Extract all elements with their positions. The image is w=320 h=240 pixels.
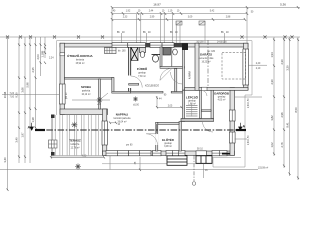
right dimension labels — [270, 52, 298, 148]
room label terasz — [69, 138, 81, 149]
exterior wall: east wing — [229, 88, 235, 156]
svg-text:15,92 m²: 15,92 m² — [75, 62, 84, 65]
svg-text:parketta: parketta — [82, 90, 91, 93]
svg-text:greslap: greslap — [138, 72, 146, 75]
wall wing middle — [181, 119, 214, 122]
svg-text:2,99: 2,99 — [150, 17, 155, 19]
stair arrow — [191, 103, 193, 117]
wall eloter west — [156, 122, 158, 151]
svg-text:A: A — [243, 125, 246, 129]
wall hall south — [112, 92, 131, 94]
left dimension labels — [3, 52, 45, 163]
svg-text:7,30 m²: 7,30 m² — [138, 75, 146, 78]
interior dimension eloter — [156, 96, 183, 109]
svg-text:3,82: 3,82 — [270, 115, 274, 121]
sill dim 10 — [109, 122, 121, 126]
svg-text:7,00: 7,00 — [10, 97, 15, 99]
window top 1 — [112, 43, 146, 48]
west corner small dims — [43, 47, 55, 60]
corner thick L — [222, 144, 233, 154]
svg-text:ÉTKEZŐ-KONYHA: ÉTKEZŐ-KONYHA — [67, 53, 93, 58]
partition wc south — [160, 67, 185, 69]
svg-text:2,40: 2,40 — [256, 63, 261, 65]
top dimension chain row2 — [111, 11, 254, 16]
svg-text:2,96: 2,96 — [280, 112, 284, 118]
svg-text:16,97: 16,97 — [153, 3, 161, 7]
window east 1 — [229, 110, 235, 121]
terrace bottom dimension 4,80 — [50, 156, 105, 159]
door arc garage — [202, 91, 208, 97]
window/door to terrace — [102, 121, 107, 145]
bottom dimension line — [0, 156, 258, 171]
svg-text:1,38: 1,38 — [31, 117, 35, 123]
svg-text:3,40: 3,40 — [15, 137, 19, 143]
bath fixtures — [131, 48, 138, 61]
svg-text:2,44: 2,44 — [149, 11, 154, 13]
steps entry — [167, 156, 187, 166]
window west (szoba) — [59, 84, 65, 104]
svg-text:1,02: 1,02 — [270, 142, 274, 148]
terrace deck hatch — [53, 115, 99, 156]
svg-text:laminált parketta: laminált parketta — [114, 117, 132, 120]
svg-text:LÉPCSŐ: LÉPCSŐ — [186, 95, 199, 100]
step leader — [204, 164, 209, 179]
partition furdo south — [129, 84, 139, 86]
room label eloter — [162, 137, 175, 148]
svg-text:10,12 m²: 10,12 m² — [81, 93, 90, 96]
kitchen counter — [105, 48, 117, 54]
top extension lines — [112, 8, 247, 43]
svg-text:1,94: 1,94 — [270, 52, 274, 58]
room label lepcso — [186, 95, 199, 106]
exterior wall: west — [59, 43, 65, 114]
svg-text:90 10: 90 10 — [197, 148, 203, 150]
svg-text:16,23 m²: 16,23 m² — [201, 61, 210, 64]
room label kozlekedo — [145, 85, 167, 97]
wall nappali west — [102, 109, 107, 155]
wall garage west — [195, 43, 199, 90]
garage section dashdot — [207, 40, 209, 87]
shaft wall — [175, 69, 177, 92]
entry door — [196, 148, 207, 155]
svg-text:4,03 m²: 4,03 m² — [218, 99, 226, 102]
wc room fixtures — [163, 48, 177, 56]
window top 2 — [150, 43, 174, 48]
svg-text:2,88: 2,88 — [226, 17, 231, 19]
partition furdo east — [160, 47, 162, 67]
stair treads — [186, 106, 198, 117]
wc furdo — [140, 48, 146, 58]
eaves overhang outline — [57, 41, 253, 167]
svg-text:2,40/1,50: 2,40/1,50 — [248, 98, 250, 108]
partition hall/nappali west segment — [131, 91, 163, 93]
terrace posts — [51, 115, 55, 119]
room label szoba — [81, 85, 92, 96]
svg-text:2,24: 2,24 — [49, 58, 54, 60]
garage car dashed — [222, 53, 246, 80]
svg-text:5,36: 5,36 — [280, 3, 286, 7]
svg-text:pm 90: pm 90 — [66, 92, 68, 99]
exterior wall: garage east — [243, 43, 249, 90]
svg-text:KAMRA: KAMRA — [189, 70, 192, 79]
section line A-A — [28, 123, 247, 131]
top dimension chain row3 — [111, 17, 246, 22]
svg-text:3,66: 3,66 — [21, 87, 25, 93]
wall eloter north — [158, 122, 179, 124]
svg-text:A: A — [28, 126, 31, 130]
svg-text:7,24: 7,24 — [10, 93, 15, 95]
door arc hall2 — [160, 68, 172, 80]
svg-text:GARDRÓB: GARDRÓB — [214, 91, 229, 96]
partition kamra west — [183, 47, 185, 90]
svg-text:5,42: 5,42 — [210, 11, 215, 13]
svg-text:3,08 m²: 3,08 m² — [164, 145, 172, 148]
svg-text:ké: 180: ké: 180 — [118, 51, 126, 53]
terrace star — [71, 122, 77, 128]
exterior wall: south — [103, 144, 235, 156]
door arc hall1 — [131, 76, 143, 88]
svg-text:1,92: 1,92 — [126, 11, 131, 13]
basin furdo — [152, 55, 161, 63]
svg-text:greslap: greslap — [188, 100, 196, 103]
room label nappali — [114, 112, 132, 123]
wall nappali east upper — [183, 90, 185, 121]
svg-text:3,09: 3,09 — [188, 17, 193, 19]
svg-text:2,30: 2,30 — [280, 59, 284, 65]
svg-text:ELŐTÉR: ELŐTÉR — [162, 137, 175, 142]
door arc nappali — [146, 134, 157, 145]
steps side — [196, 156, 212, 164]
room label garazs — [199, 52, 215, 64]
partition szoba/etkezo — [65, 78, 114, 80]
leader szoba window — [2, 93, 59, 99]
svg-text:kerámia: kerámia — [76, 59, 85, 62]
leader garage window — [248, 63, 267, 70]
wall eloter east — [179, 122, 182, 152]
svg-text:±0,00: ±0,00 — [133, 105, 139, 107]
elevation star szoba corner — [72, 93, 110, 106]
partition etkezo/furdo — [129, 47, 131, 92]
svg-text:2,10: 2,10 — [256, 68, 261, 70]
svg-text:2,03: 2,03 — [36, 54, 40, 60]
window south small — [153, 151, 162, 156]
svg-text:1,83 m²: 1,83 m² — [188, 103, 196, 106]
room label gardrob — [214, 91, 229, 102]
svg-text:1,97: 1,97 — [21, 132, 25, 138]
svg-text:5,96: 5,96 — [26, 82, 30, 88]
window east 2 — [229, 132, 235, 143]
gardrob door arc — [203, 122, 214, 133]
svg-text:kültéri fa: kültéri fa — [71, 143, 80, 146]
svg-text:pm 60: pm 60 — [126, 145, 133, 147]
chimney — [182, 44, 188, 51]
wall szoba east — [99, 79, 101, 109]
elevation mark nappali — [133, 97, 140, 107]
svg-text:NAPPALI: NAPPALI — [116, 112, 129, 116]
garage window east — [243, 49, 249, 85]
svg-text:greslap: greslap — [218, 96, 226, 99]
partition hall/nappali east segment — [171, 91, 184, 93]
svg-text:SZOBA: SZOBA — [81, 85, 92, 89]
grill grid symbol — [49, 140, 58, 148]
property boundary line with x marks — [0, 36, 300, 39]
svg-text:3,30: 3,30 — [285, 65, 289, 71]
top chimney symbols — [176, 21, 182, 25]
svg-text:1,19: 1,19 — [168, 11, 173, 13]
svg-text:2,05: 2,05 — [168, 106, 173, 108]
svg-text:2×50/250: 2×50/250 — [217, 41, 227, 44]
room label etkezo — [67, 53, 93, 65]
svg-text:2,30: 2,30 — [270, 79, 274, 85]
wall garage south — [185, 87, 249, 90]
svg-text:12,76 m²: 12,76 m² — [70, 146, 79, 149]
exterior wall: top — [60, 43, 248, 48]
wall szoba south — [60, 109, 108, 115]
svg-text:2,76: 2,76 — [280, 142, 284, 148]
svg-text:133,08 m²: 133,08 m² — [258, 167, 269, 170]
drain dashdot marker — [192, 156, 196, 186]
svg-text:2,40/1,50: 2,40/1,50 — [248, 135, 250, 145]
terrace outline — [51, 115, 102, 158]
right dimension chains — [273, 37, 299, 180]
window south wing — [212, 151, 227, 156]
svg-text:FÜRDŐ: FÜRDŐ — [137, 66, 148, 71]
wall notch — [60, 53, 65, 56]
svg-text:8,41: 8,41 — [285, 122, 289, 128]
wall hall west — [112, 78, 114, 93]
svg-text:TERASZ: TERASZ — [69, 138, 81, 142]
svg-text:greslap: greslap — [164, 142, 172, 145]
partition wc divider — [171, 47, 173, 67]
stairs walls — [200, 90, 202, 118]
svg-text:8,50: 8,50 — [294, 107, 298, 113]
top window callouts — [117, 32, 229, 34]
svg-text:2,35: 2,35 — [31, 67, 35, 73]
svg-text:cementsimítás: cementsimítás — [199, 57, 215, 60]
left dimension chains — [7, 37, 47, 191]
window south big — [106, 151, 151, 156]
top dimension chain total 16,97 — [111, 3, 300, 10]
svg-text:2,33: 2,33 — [123, 17, 128, 19]
svg-text:50/190: 50/190 — [197, 42, 205, 44]
svg-text:KÖZLEKEDŐ: KÖZLEKEDŐ — [145, 85, 159, 88]
room label furdo — [137, 66, 148, 78]
leader east windows — [235, 97, 263, 108]
door arc kamra — [171, 72, 183, 84]
svg-text:ké: 180: ké: 180 — [208, 51, 216, 53]
benchmark star — [75, 164, 81, 170]
svg-text:3,40: 3,40 — [3, 157, 7, 163]
window south long — [166, 151, 185, 156]
